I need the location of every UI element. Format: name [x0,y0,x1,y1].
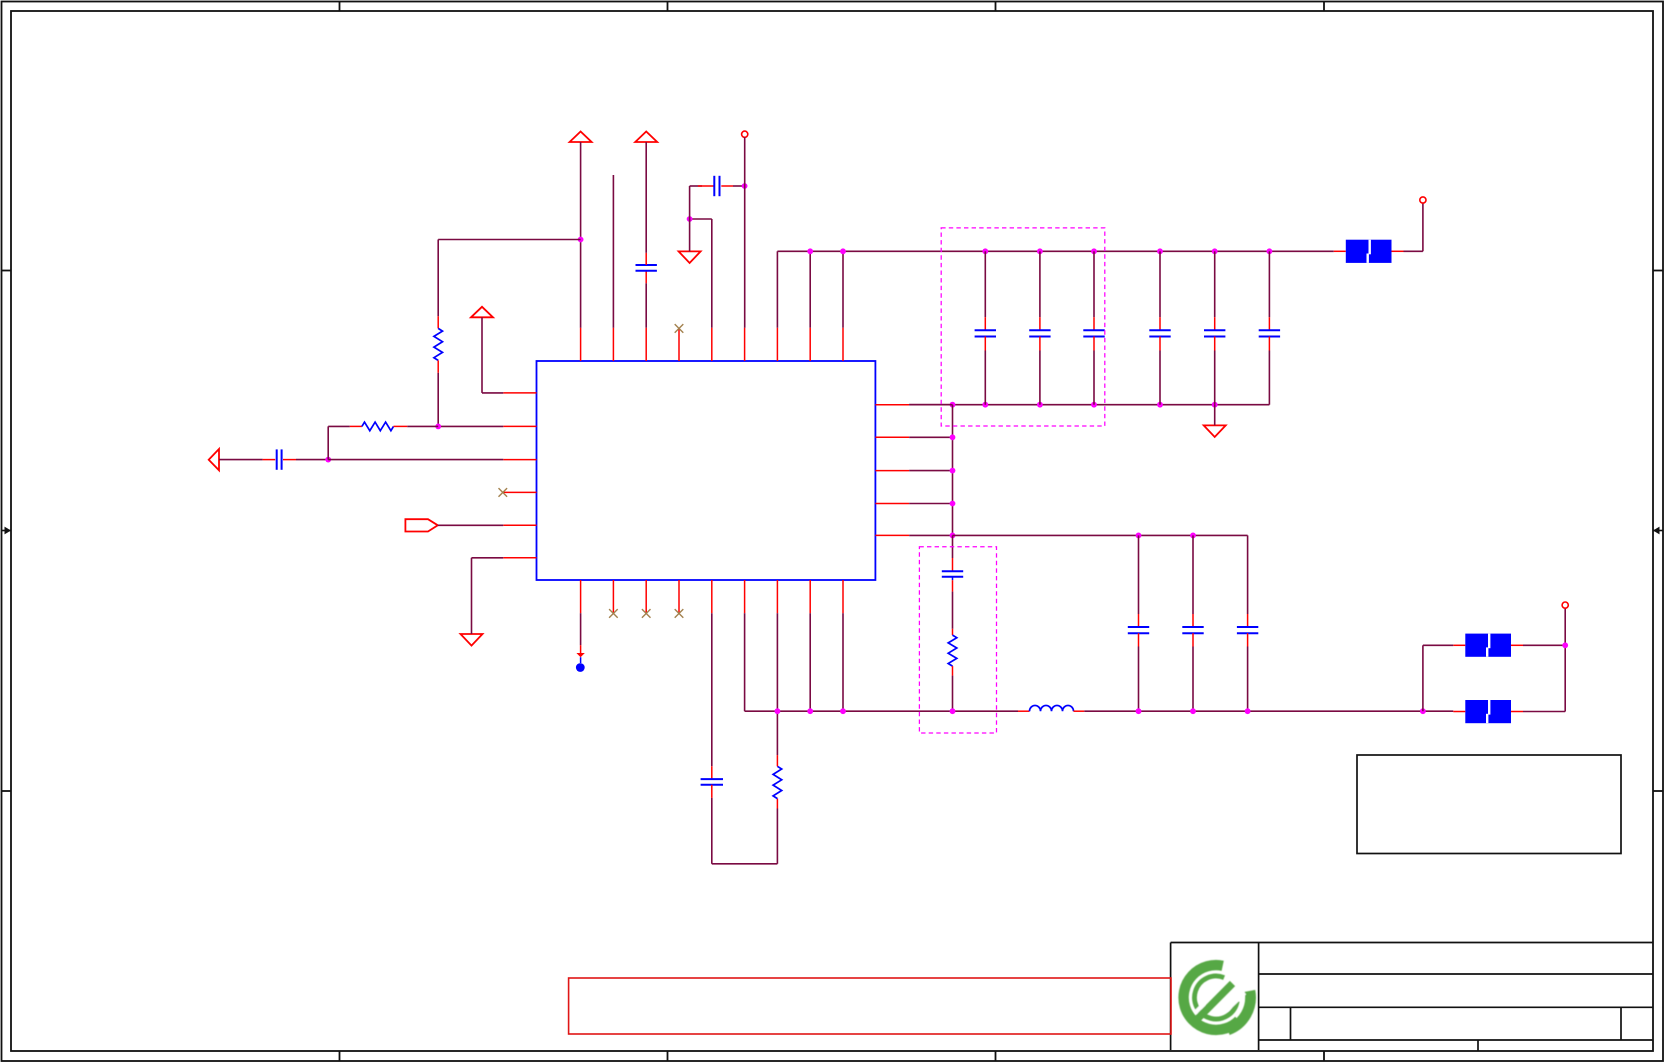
node junctions bottom rail right [1136,708,1426,714]
capacitor C13 [701,778,723,780]
node junctions rail mid [1136,533,1196,539]
no-connect pin T4 [675,324,684,333]
wire junction up to R4 [328,426,362,459]
node junction T6 [742,183,748,189]
wire PORT2 to pin L5 [438,524,504,526]
title block outline [1171,943,1653,1052]
wire junction to pin L3 [328,459,503,461]
wire R2 to bottom rail [952,666,954,711]
wire right pins to bus [909,405,952,536]
wire pins B7-B9 down [777,613,843,711]
wire pin T8 up [809,251,811,327]
wire C13 to bottom loop [712,785,778,864]
node junctions bus [950,434,956,538]
capacitor C8 [1259,251,1280,350]
node junction C14 [325,457,331,463]
power symbol VCC3 [471,307,493,318]
node junction FB loop [1562,642,1568,648]
dashed group box 2 [919,547,996,733]
capacitor C14 [276,449,278,469]
frame zone ticks top [340,2,1325,12]
wire pin L6 to GND2 [472,558,504,634]
wire rail mid (3-cap top) [953,535,1248,614]
node junctions top rail [807,248,1272,254]
terminal P1 [742,131,748,137]
IC U1 right pins [875,405,909,536]
wire pin B5 to C13 [711,613,713,779]
wire junction to pin L2 [438,425,503,427]
no-connect pin B4 [675,609,684,618]
capacitor C3 [975,251,996,404]
wire VCC1 to pin T1 [580,142,582,328]
node junction C2/GND1 [687,216,693,222]
capacitor C12 [1237,614,1258,711]
ground GND3 [1204,425,1226,437]
capacitor C9 [942,570,963,572]
node junctions bottom rail left [775,708,956,714]
terminal P3 [1562,602,1568,608]
wire rail to FB1 [1334,250,1346,252]
wire C9 to R2 [952,577,954,635]
wire bus down to C9 [952,535,954,571]
revision box [1357,755,1621,854]
capacitor C10 [1128,535,1149,711]
IC U1 bottom pins [581,580,843,613]
capacitor C6 [1149,251,1170,404]
wire pin T2 stub [612,175,614,328]
wire C1 to VCC2 [645,142,647,265]
resistor R3 [773,766,782,798]
inductor L1 [1018,705,1084,711]
wire PORT1 to C14 [219,459,275,461]
IC U1 left pins [503,393,536,558]
ferrite bead FB1 (net tie pads) [1346,240,1392,263]
no-connect pin B3 [642,609,651,618]
capacitor C2 [713,176,715,196]
wire vertical bus [952,405,954,536]
node junctions bottom rail [950,402,1218,408]
wire C2 to pin T6 wire [721,185,744,187]
wire pin T9 up [842,251,844,327]
wire pin T7 to cap bank rail [776,251,778,327]
ground GND1 [679,251,701,263]
wire C14 to junction [283,459,328,461]
ferrite bead FB2 (net tie pads) [1453,634,1523,657]
wire VCC3 to pin L1 [482,317,503,393]
frame centering arrow right [1653,527,1663,535]
wire net bottom rail (cap bank) [909,351,1269,405]
ground GND2 [461,634,483,646]
input port PORT2 [405,519,437,531]
test point TP1 (pin B1) [576,613,585,672]
capacitor C11 [1182,535,1203,711]
capacitor C7 [1204,251,1225,404]
resistor R2 [948,635,957,666]
wire pin B6 to bottom rail [745,613,1018,711]
frame zone ticks left [2,271,12,792]
IC U1 body [537,361,876,580]
no-connect pin L4 [499,488,508,497]
wire R3 to rail junction [776,711,778,766]
input port PORT1 [209,449,219,470]
capacitor C5 [1083,251,1104,404]
dashed group box 1 [941,228,1105,426]
frame zone ticks bottom [340,1051,1325,1062]
no-connect pin B2 [609,609,618,618]
IC U1 top pins [581,328,843,361]
wire junction up to C2 [690,186,714,219]
wire R4 to junction L2 [394,425,439,427]
wire net VDD top rail [777,250,1333,252]
wire R1 to junction L2 [437,360,439,426]
frame zone ticks right [1653,271,1663,792]
wire GND3 stub [1214,405,1216,426]
resistor R1 [434,328,443,360]
node junction T1 branch [578,237,584,243]
power symbol VCC1 [570,132,592,143]
wire FB parallel loop [1423,608,1565,711]
wire junction to GND1 [689,219,691,251]
ferrite bead FB3 (net tie pads) [1453,700,1523,723]
wire branch to R1 [438,240,580,329]
wire P1 to pin T6 [744,137,746,327]
terminal P2 [1420,197,1426,203]
wire pin T3 to C1 [645,271,647,328]
resistor R4 [362,422,394,431]
wire bottom rail right [1084,710,1453,712]
capacitor C4 [1029,251,1050,404]
wire pin T5 up [690,219,712,328]
wire FB1 to terminal P2 [1392,203,1423,251]
power symbol VCC2 [635,132,657,143]
notes box (red) [569,978,1171,1034]
capacitor C1 [636,264,657,266]
node junction L2 [435,424,441,430]
frame centering arrow left [2,527,12,535]
